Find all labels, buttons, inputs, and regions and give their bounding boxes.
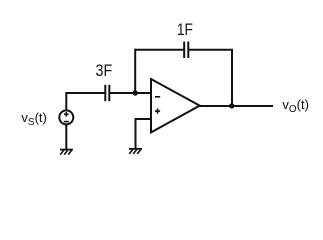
wire feedback top rail left of C2: [135, 49, 183, 51]
op-amp inverting input minus symbol: [155, 96, 160, 98]
voltage source minus sign: [64, 121, 69, 123]
svg-text:1F: 1F: [177, 21, 193, 39]
wire non-inverting input to ground drop: [136, 119, 152, 148]
capacitor C2 1F plates: [184, 42, 188, 59]
wire C1 right plate to op-amp inverting input: [110, 92, 152, 94]
node B junction dot (output): [229, 103, 234, 108]
node A junction dot (inverting input): [133, 90, 138, 95]
voltage source VS circle: [59, 110, 73, 124]
wire feedback left vertical (node A up to top rail): [134, 49, 136, 93]
wire source top vertical and input horizontal to C1 left plate: [66, 93, 104, 111]
ground under non-inverting input: [129, 149, 142, 154]
voltage source plus sign: [64, 112, 69, 117]
wire feedback top rail right of C2 and right vertical down to node B: [189, 50, 233, 106]
capacitor C1 3F plates: [105, 85, 109, 101]
svg-text:3F: 3F: [96, 62, 113, 80]
op-amp non-inverting input plus symbol: [155, 109, 160, 114]
op-amp U1 triangle: [151, 79, 200, 132]
ground under voltage source: [60, 150, 73, 155]
wire op-amp output to node B and out to vo(t): [199, 105, 274, 107]
wire source bottom vertical to ground: [65, 125, 67, 150]
